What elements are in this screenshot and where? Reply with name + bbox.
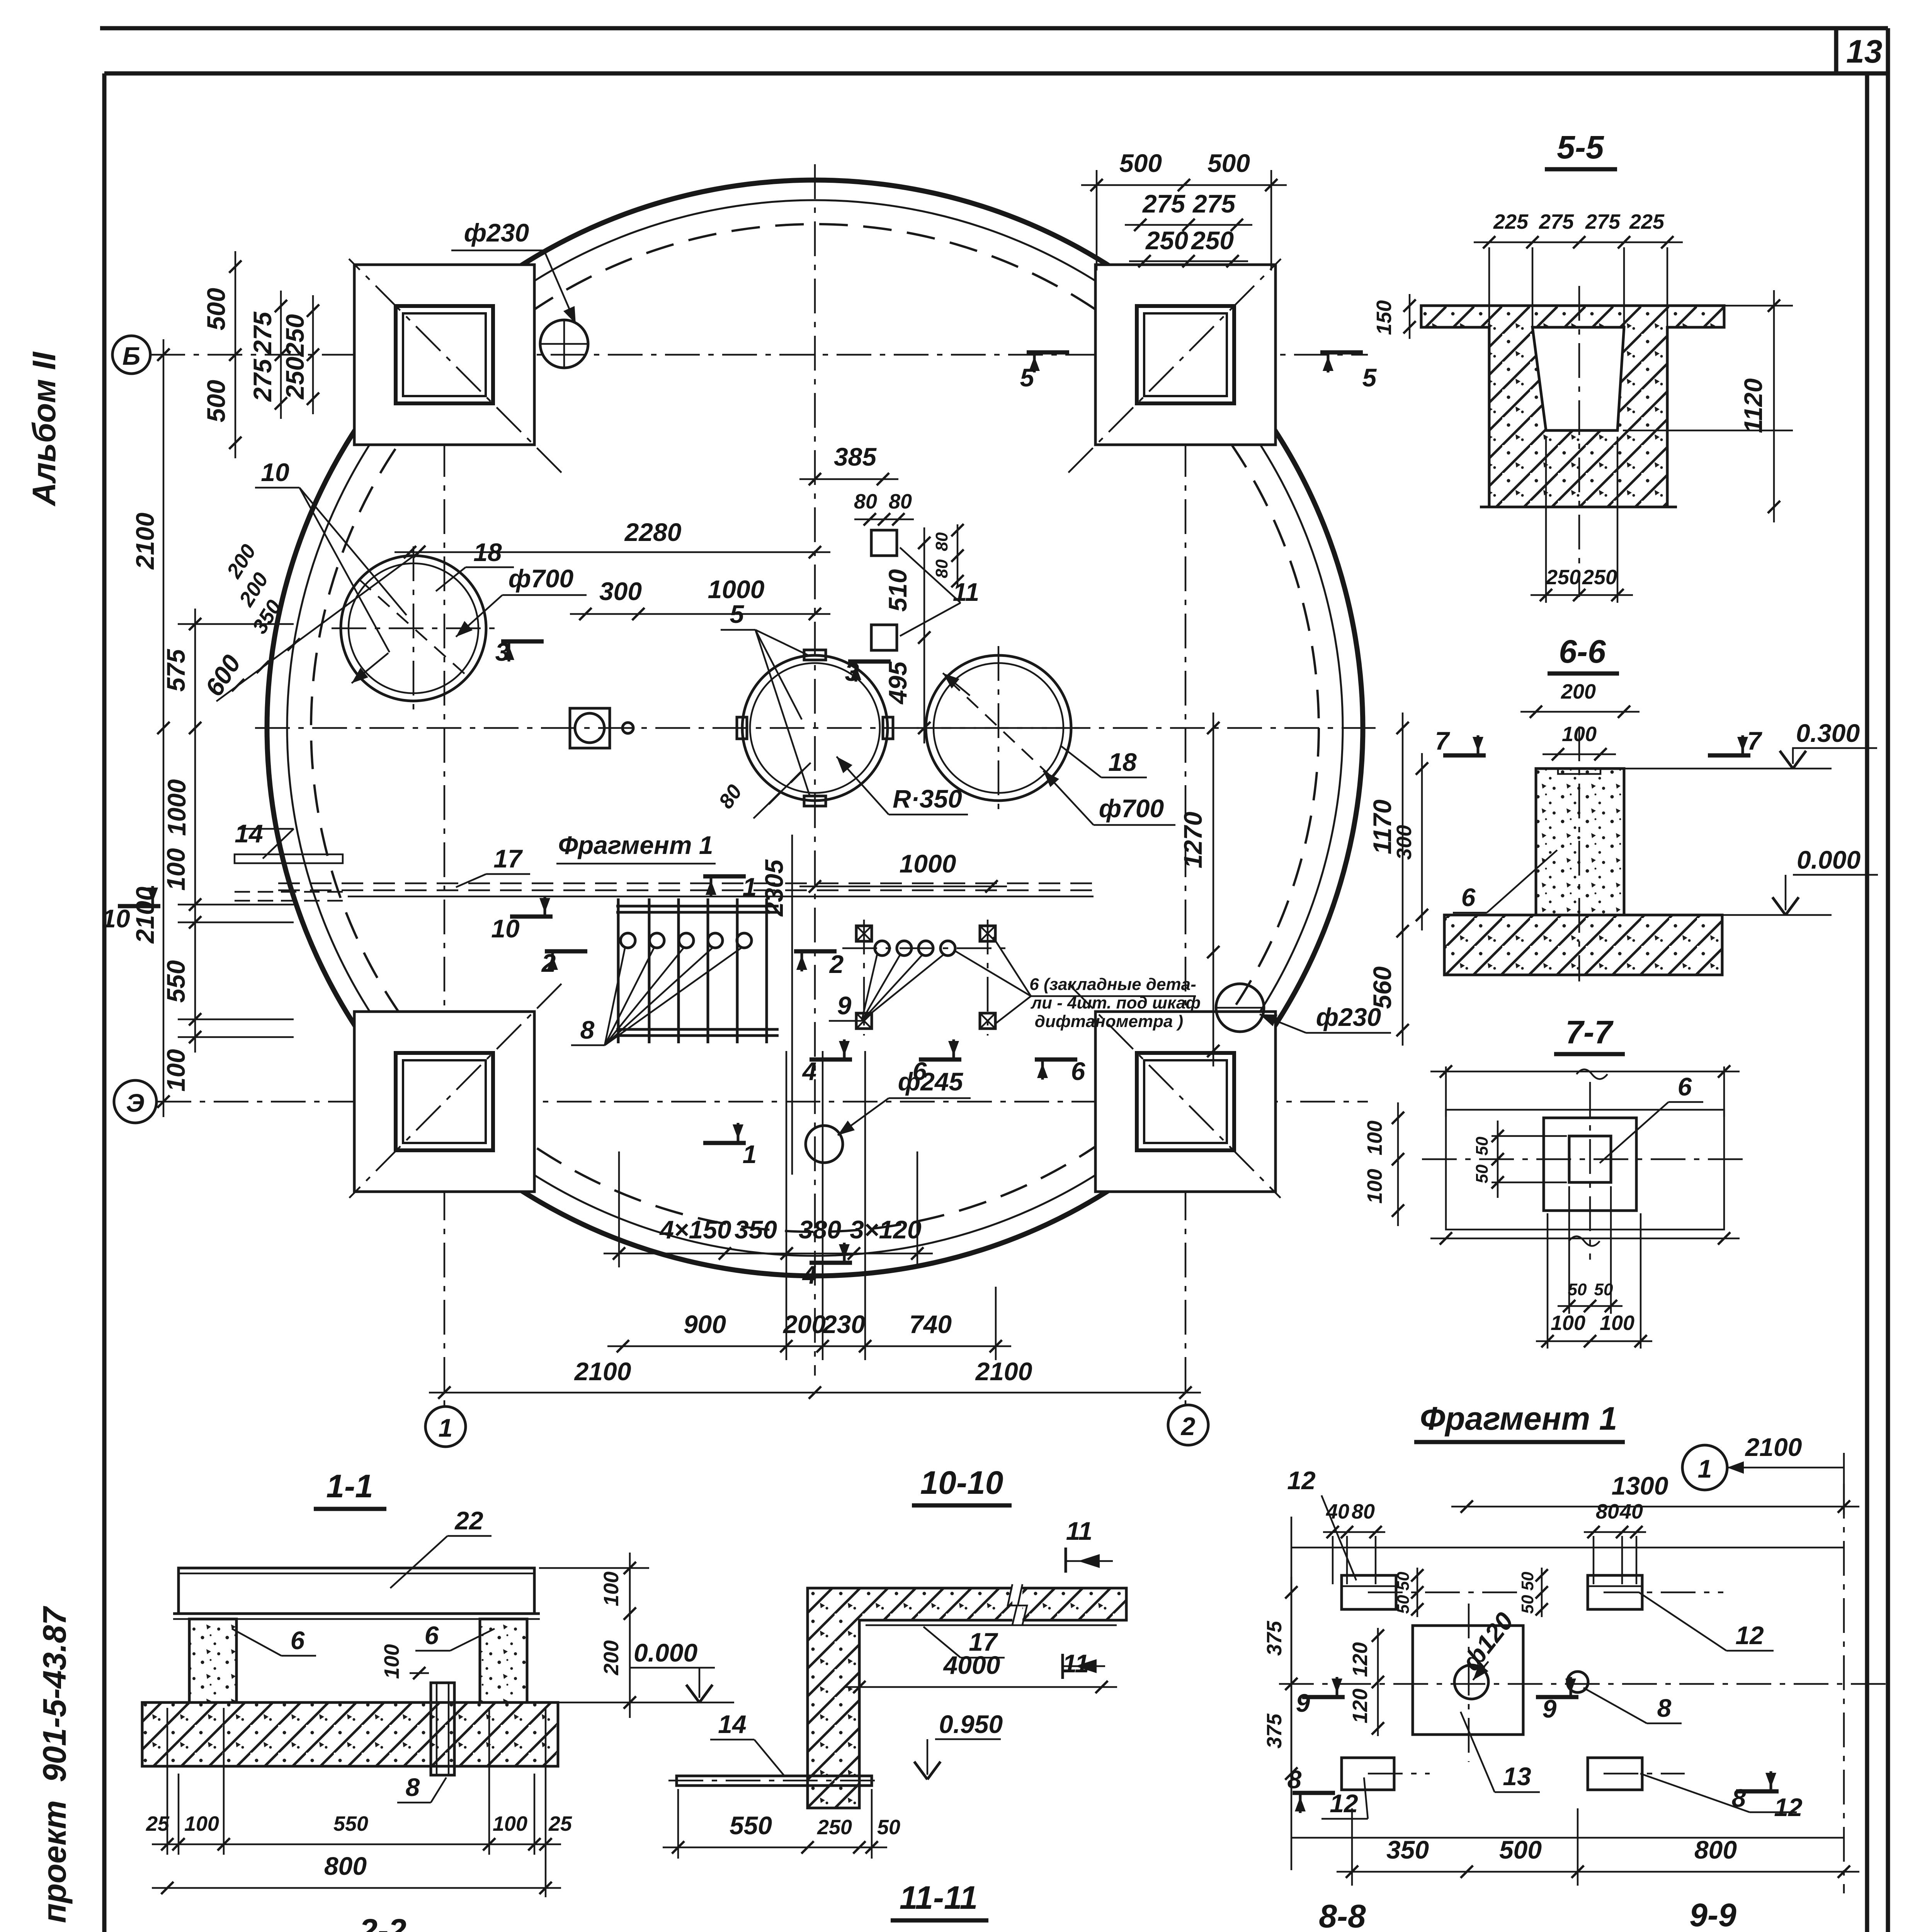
svg-text:25: 25 (146, 1812, 170, 1835)
svg-text:Б: Б (122, 342, 141, 370)
svg-text:50: 50 (1568, 1280, 1587, 1299)
svg-text:500: 500 (1207, 149, 1250, 177)
svg-text:4000: 4000 (943, 1651, 1000, 1679)
svg-text:ф245: ф245 (898, 1067, 964, 1096)
svg-text:2: 2 (1180, 1412, 1196, 1440)
7-7 left dims 100 100 (1397, 1102, 1399, 1226)
svg-text:5-5: 5-5 (1557, 129, 1604, 165)
svg-text:1300: 1300 (1612, 1471, 1668, 1500)
fragment hole pos 8 (1567, 1672, 1588, 1692)
top right pad dims 500 500 / 275 275 / 250 250 (1081, 184, 1287, 186)
7-7 slab outline (1446, 1110, 1724, 1230)
svg-text:500: 500 (1119, 149, 1162, 177)
7-7 centerlines (1422, 1158, 1750, 1160)
column foundation pad A1 (354, 265, 534, 445)
diagonal dims 200 200 350 600 (216, 552, 419, 701)
fragment centerlines (1468, 1604, 1470, 1762)
svg-text:100: 100 (1600, 1311, 1634, 1335)
svg-text:5: 5 (1362, 363, 1377, 392)
svg-text:2100: 2100 (131, 886, 159, 944)
fragment axis circle 1 (1682, 1445, 1727, 1490)
svg-text:250: 250 (1145, 226, 1188, 255)
svg-text:800: 800 (1694, 1835, 1737, 1864)
svg-text:3: 3 (845, 658, 859, 686)
svg-text:500: 500 (1499, 1835, 1542, 1864)
svg-text:10-10: 10-10 (920, 1464, 1003, 1501)
svg-text:50: 50 (1394, 1595, 1413, 1614)
svg-text:375: 375 (1263, 1621, 1286, 1656)
svg-text:8: 8 (1657, 1694, 1672, 1722)
fragment left dims 375 375 (1291, 1577, 1293, 1789)
svg-text:495: 495 (883, 661, 912, 705)
1-1 left column (189, 1619, 236, 1702)
svg-text:575: 575 (162, 649, 190, 692)
svg-text:200: 200 (1561, 680, 1596, 703)
support strip (pos 17) (278, 883, 1097, 884)
svg-text:50: 50 (877, 1816, 900, 1839)
svg-text:Э: Э (126, 1088, 144, 1117)
svg-text:230: 230 (822, 1310, 865, 1338)
svg-text:4: 4 (802, 1057, 817, 1085)
dim 1000 center bottom (799, 886, 1007, 888)
channel strip (pos 14) (235, 854, 343, 863)
svg-text:дифтанометра ): дифтанометра ) (1035, 1012, 1183, 1031)
5-5 dim 1120 (1773, 290, 1775, 522)
svg-text:375: 375 (1263, 1713, 1286, 1748)
svg-text:275: 275 (1585, 210, 1621, 233)
svg-text:11: 11 (953, 578, 980, 606)
dim 2305 (791, 835, 793, 1175)
anchor group right (pos 9) (863, 920, 865, 1036)
svg-text:0.300: 0.300 (1796, 719, 1860, 747)
svg-text:380: 380 (799, 1215, 841, 1244)
slab dashed circle (311, 224, 1319, 1232)
svg-text:225: 225 (1629, 210, 1665, 233)
svg-text:300: 300 (1393, 825, 1416, 860)
foundation slab outer circle (267, 180, 1363, 1276)
svg-text:385: 385 (834, 442, 877, 471)
svg-text:ф230: ф230 (1316, 1003, 1381, 1031)
svg-text:275: 275 (248, 359, 277, 402)
svg-text:1170: 1170 (1368, 799, 1396, 854)
7-7 bottom dims 50 50 100 100 (1568, 1186, 1570, 1314)
manhole circle f700 central (742, 655, 888, 801)
svg-text:40: 40 (1326, 1500, 1349, 1523)
plan horizontal centerline (255, 727, 1376, 729)
svg-text:7: 7 (1435, 726, 1451, 755)
svg-text:120: 120 (1349, 1689, 1372, 1723)
svg-text:100: 100 (493, 1812, 527, 1835)
manhole circle f700 left (pos 18) (341, 556, 486, 701)
svg-text:ф700: ф700 (1099, 794, 1164, 823)
6-6 dim 100 (1543, 753, 1616, 755)
svg-text:11: 11 (1066, 1517, 1093, 1545)
svg-text:80: 80 (889, 490, 912, 513)
svg-text:7-7: 7-7 (1565, 1014, 1614, 1050)
svg-text:1270: 1270 (1179, 811, 1207, 868)
svg-text:14: 14 (235, 819, 263, 848)
svg-text:17: 17 (493, 844, 523, 873)
svg-text:80: 80 (1596, 1500, 1619, 1523)
5-5 foundation body (1421, 306, 1724, 507)
5-5 bottom dims 250 250 (1545, 437, 1547, 603)
svg-text:80: 80 (1352, 1500, 1375, 1523)
svg-text:50: 50 (1594, 1280, 1613, 1299)
dim 1170 560 right (1402, 713, 1404, 1046)
svg-text:0.000: 0.000 (634, 1638, 697, 1667)
pos 11 label (900, 548, 961, 603)
svg-text:ф700: ф700 (509, 564, 574, 593)
svg-text:6: 6 (291, 1626, 305, 1655)
1-1 steel post pos 8 (431, 1683, 454, 1775)
10-10 bottom dims 550 250 50 (677, 1789, 679, 1859)
1-1 slab pos 22 (179, 1568, 534, 1614)
embedded plates 80x80 (pos 11) (871, 530, 897, 556)
svg-text:1: 1 (743, 872, 757, 901)
svg-text:1000: 1000 (708, 575, 765, 604)
fragment hole f120 (1454, 1665, 1488, 1699)
inner frame top (104, 71, 1888, 76)
svg-text:50: 50 (1394, 1571, 1413, 1590)
svg-text:740: 740 (909, 1310, 952, 1338)
svg-text:0.950: 0.950 (939, 1710, 1003, 1738)
svg-text:225: 225 (1493, 210, 1529, 233)
svg-text:250: 250 (281, 314, 309, 357)
svg-text:100: 100 (1363, 1169, 1386, 1204)
svg-text:4: 4 (802, 1260, 817, 1289)
svg-text:200: 200 (600, 1640, 623, 1675)
10-10 channel pos 14 (677, 1776, 872, 1786)
svg-text:1120: 1120 (1739, 378, 1767, 433)
1-1 level 0.000 (558, 1702, 734, 1704)
svg-text:275: 275 (1539, 210, 1574, 233)
6-6 level 0.300 (1624, 768, 1832, 770)
svg-text:18: 18 (473, 538, 502, 566)
svg-text:250: 250 (1190, 226, 1234, 255)
svg-text:6: 6 (1071, 1057, 1086, 1085)
svg-text:Фрагмент 1: Фрагмент 1 (1420, 1400, 1617, 1437)
left dim chain 2100 2100 (163, 339, 165, 1117)
svg-text:8-8: 8-8 (1319, 1898, 1366, 1932)
svg-text:1: 1 (1698, 1454, 1712, 1483)
embedded plate with hole (pos 8) (570, 708, 610, 748)
svg-text:80: 80 (932, 559, 951, 578)
10-10 L-wall body (808, 1588, 1126, 1808)
axis Э circle (114, 1080, 156, 1123)
svg-text:150: 150 (1372, 300, 1396, 335)
svg-text:550: 550 (162, 960, 190, 1003)
svg-text:10: 10 (491, 914, 520, 943)
svg-text:2100: 2100 (975, 1357, 1032, 1386)
svg-text:100: 100 (1551, 1311, 1585, 1335)
6-6 level 0.000 (1722, 914, 1832, 916)
svg-text:100: 100 (184, 1812, 219, 1835)
svg-text:300: 300 (599, 577, 642, 605)
outer top trim line (100, 26, 1888, 31)
svg-text:ф230: ф230 (464, 218, 529, 247)
7-7 left dims 50 50 (1497, 1121, 1499, 1198)
6-6 dim 200 (1520, 711, 1639, 713)
left dim chain 575 1000 100 550 100 (194, 609, 196, 1053)
dim 1270 560 right (1213, 713, 1214, 1066)
svg-text:6: 6 (425, 1621, 439, 1650)
svg-text:6: 6 (1461, 883, 1476, 912)
svg-text:1: 1 (439, 1413, 453, 1442)
svg-text:900: 900 (684, 1310, 726, 1338)
svg-text:100: 100 (600, 1571, 623, 1606)
hole f230 top left (540, 320, 588, 368)
axis 1 line (444, 270, 446, 1406)
outer right trim line (1886, 28, 1890, 1932)
6-6 section flags 7 (1443, 753, 1486, 758)
7-7 top dim (1430, 1071, 1740, 1073)
svg-text:6: 6 (913, 1057, 927, 1085)
svg-text:Фрагмент 1: Фрагмент 1 (558, 831, 713, 859)
7-7 outer square (1544, 1118, 1636, 1211)
svg-text:2100: 2100 (574, 1357, 631, 1386)
svg-text:275: 275 (248, 311, 277, 355)
svg-text:250: 250 (817, 1816, 852, 1839)
svg-text:4×150: 4×150 (659, 1215, 731, 1244)
fragment anchor plate pos 13 (1413, 1626, 1523, 1735)
svg-text:2305: 2305 (760, 859, 788, 917)
svg-text:2: 2 (541, 949, 556, 977)
small anchor circle (622, 723, 633, 733)
svg-text:6-6: 6-6 (1559, 633, 1606, 670)
dim 150 slab edge (1409, 294, 1411, 339)
dim 300 1000 (570, 613, 830, 615)
svg-text:50: 50 (1473, 1164, 1492, 1183)
5-5 centerline (1578, 286, 1580, 597)
svg-text:1: 1 (743, 1140, 757, 1168)
svg-text:100: 100 (162, 848, 190, 891)
svg-text:11-11: 11-11 (900, 1879, 978, 1916)
fragment dims 40 80 / 80 40 (1323, 1531, 1385, 1533)
svg-text:12: 12 (1774, 1793, 1803, 1821)
section flags on plan (1027, 350, 1069, 355)
fragment axis lines (1843, 1484, 1845, 1893)
bottom dim chain 4x150 350 380 3x120 (604, 1253, 933, 1255)
svg-text:500: 500 (202, 288, 230, 330)
svg-text:50: 50 (1518, 1595, 1537, 1614)
1-1 dim 800 (152, 1887, 561, 1889)
svg-text:Альбом II: Альбом II (26, 351, 62, 507)
column foundation pad B2 (1095, 1012, 1276, 1192)
10-10 slab soffit plate pos 17 (866, 1624, 1117, 1626)
svg-text:7: 7 (1747, 726, 1763, 755)
svg-text:6 (закладные дета-: 6 (закладные дета- (1029, 975, 1196, 994)
fragment dims 120 120 (1377, 1628, 1379, 1736)
svg-text:40: 40 (1619, 1500, 1643, 1523)
10-10 break in slab (1012, 1584, 1022, 1623)
axis 2 circle (1168, 1405, 1208, 1445)
dim 80 80 (pos 11) (854, 519, 914, 520)
svg-text:50: 50 (1473, 1136, 1492, 1155)
svg-text:500: 500 (202, 380, 230, 422)
fragment section flags (1302, 1695, 1345, 1699)
svg-text:200: 200 (782, 1310, 826, 1338)
svg-text:12: 12 (1735, 1621, 1764, 1650)
svg-text:2100: 2100 (131, 512, 159, 570)
svg-text:25: 25 (548, 1812, 572, 1835)
svg-text:2-2: 2-2 (359, 1912, 406, 1932)
fragment bottom dims 350 500 800 (1337, 1871, 1859, 1873)
fragment rotated dims 50 50 pairs (1417, 1568, 1418, 1617)
1-1 right dims 100 200 (629, 1553, 631, 1718)
svg-text:250: 250 (281, 357, 309, 400)
svg-text:10: 10 (102, 904, 130, 933)
1-1 bottom dims 25 100 550 100 25 (167, 1708, 168, 1855)
svg-text:14: 14 (718, 1710, 746, 1738)
hole f245 bottom center (806, 1126, 843, 1163)
svg-text:350: 350 (1386, 1835, 1429, 1864)
svg-text:80: 80 (932, 532, 951, 551)
10-10 dim 4000 (844, 1686, 1117, 1688)
svg-text:2: 2 (829, 950, 844, 978)
svg-text:100: 100 (380, 1644, 403, 1679)
svg-text:18: 18 (1108, 748, 1137, 776)
svg-text:22: 22 (454, 1506, 483, 1535)
dim 2280 (395, 551, 830, 553)
6-6 base slab (1444, 915, 1722, 975)
svg-text:50: 50 (1518, 1571, 1537, 1590)
svg-text:10: 10 (261, 458, 289, 486)
svg-text:13: 13 (1503, 1762, 1531, 1791)
axis 2 line (1185, 270, 1187, 1405)
svg-text:1-1: 1-1 (326, 1468, 373, 1504)
6-6 column (1536, 769, 1624, 915)
column foundation pad B1 (354, 1012, 534, 1192)
svg-text:120: 120 (1349, 1642, 1372, 1677)
svg-text:100: 100 (1363, 1121, 1386, 1155)
svg-text:5: 5 (730, 600, 745, 628)
column foundation pad A2 (1095, 265, 1276, 445)
svg-text:275: 275 (1142, 189, 1185, 218)
svg-text:9: 9 (1543, 1694, 1557, 1723)
svg-text:550: 550 (730, 1811, 772, 1840)
svg-text:0.000: 0.000 (1797, 845, 1861, 874)
svg-text:9-9: 9-9 (1689, 1897, 1736, 1932)
svg-text:8: 8 (1732, 1784, 1746, 1812)
witness lines bottom (786, 1051, 787, 1360)
svg-text:9: 9 (1296, 1689, 1310, 1717)
fragment plates pos 12 (1342, 1575, 1396, 1609)
axis Б line (150, 354, 1368, 356)
fragment slab edges (1291, 1547, 1844, 1549)
svg-text:R·350: R·350 (893, 784, 962, 813)
1-1 ground slab (142, 1702, 558, 1766)
left pad dims 500 500 / 275 275 / 250 250 (235, 251, 236, 458)
svg-text:3×120: 3×120 (850, 1215, 922, 1244)
svg-text:800: 800 (324, 1852, 367, 1880)
svg-text:80: 80 (854, 490, 877, 513)
svg-text:5: 5 (1020, 363, 1035, 392)
manhole circle f700 right (pos 18) (926, 655, 1071, 801)
hole f230 bottom right (1216, 984, 1264, 1032)
svg-text:275: 275 (1192, 189, 1236, 218)
5-5 top dims 225 275 275 225 (1474, 241, 1683, 243)
slab second circle (287, 200, 1343, 1256)
6-6 dim 300 (1421, 753, 1423, 930)
7-7 inner square (1569, 1136, 1611, 1182)
svg-text:9: 9 (837, 991, 852, 1020)
svg-text:1000: 1000 (900, 849, 956, 878)
plan vertical centerline (814, 164, 816, 1376)
axis 1 circle (425, 1406, 466, 1447)
svg-text:250: 250 (1546, 566, 1581, 589)
svg-text:8: 8 (406, 1773, 420, 1801)
dim 385 (799, 478, 898, 480)
svg-text:100: 100 (162, 1049, 190, 1092)
svg-text:550: 550 (333, 1812, 368, 1835)
svg-text:13: 13 (1846, 33, 1882, 70)
svg-text:250: 250 (1582, 566, 1617, 589)
1-1 right column (480, 1619, 527, 1702)
svg-text:2280: 2280 (624, 518, 682, 546)
dim 510 495 (923, 527, 925, 743)
svg-text:Типовой проект 901-5-43.87: Типовой проект 901-5-43.87 (36, 1606, 73, 1932)
svg-text:2100: 2100 (1745, 1433, 1802, 1461)
axis Б circle (112, 336, 150, 374)
svg-text:8: 8 (580, 1015, 595, 1044)
bottom dim chain 2100 2100 (429, 1392, 1201, 1394)
axis Э line (156, 1101, 1368, 1103)
inner frame left (102, 73, 107, 1932)
second right line (1865, 73, 1869, 1932)
7-7 bottom dim line (1430, 1238, 1740, 1240)
bottom dim chain 900 200 230 740 (607, 1345, 1011, 1347)
svg-text:1000: 1000 (162, 779, 191, 836)
svg-text:350: 350 (735, 1215, 777, 1244)
anchor frame left (pos 8 group) (616, 905, 779, 908)
sheet number box (1834, 28, 1838, 73)
5-5 socket void (1532, 327, 1624, 430)
svg-text:6: 6 (1678, 1072, 1692, 1101)
fragment dim 1300 (1451, 1506, 1859, 1508)
svg-text:510: 510 (883, 569, 912, 612)
svg-text:3: 3 (495, 638, 510, 666)
svg-text:12: 12 (1287, 1466, 1316, 1495)
